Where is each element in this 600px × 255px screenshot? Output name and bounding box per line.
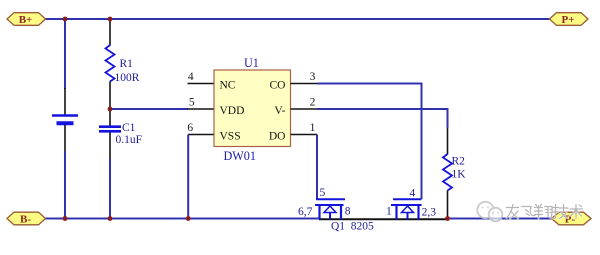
junction B- battery — [63, 216, 68, 221]
svg-text:Q1 8205: Q1 8205 — [331, 221, 374, 233]
battery BT bottom pin — [64, 125, 66, 151]
pin 2 V- — [291, 108, 318, 110]
pin 5 VDD — [188, 108, 214, 110]
svg-text:5: 5 — [320, 187, 326, 199]
svg-text:CO: CO — [270, 79, 286, 91]
capacitor C1 plates — [99, 127, 121, 132]
port P+ — [550, 13, 589, 27]
svg-text:1K: 1K — [452, 168, 467, 180]
wire VDD to C1/R1 junction — [110, 108, 188, 110]
wire VSS down to B- bus — [187, 135, 189, 219]
port P- — [552, 212, 592, 226]
svg-text:R2: R2 — [452, 156, 466, 168]
svg-text:6,7: 6,7 — [298, 206, 313, 218]
junction B+ R1 — [108, 17, 113, 22]
svg-text:4: 4 — [410, 187, 416, 199]
wire bottom bus black segment under Q1 — [319, 218, 448, 220]
svg-text:5: 5 — [189, 96, 195, 108]
pin 4 NC — [188, 83, 214, 85]
junction B+ battery — [63, 17, 68, 22]
port B+ — [7, 13, 46, 27]
battery BT plates — [52, 116, 78, 124]
resistor R1 bottom pin — [109, 82, 111, 110]
svg-text:B-: B- — [20, 214, 31, 226]
svg-text:2,3: 2,3 — [422, 207, 437, 219]
transistor Q1B (right half 8205) — [391, 199, 422, 219]
svg-text:VSS: VSS — [220, 130, 241, 142]
junction R2 P- — [445, 216, 450, 221]
svg-text:NC: NC — [220, 79, 236, 91]
wire bottom bus junction R2 to P- — [448, 218, 554, 220]
svg-text:V-: V- — [274, 105, 285, 117]
wire battery branch lower — [64, 151, 66, 219]
svg-text:VDD: VDD — [220, 105, 245, 117]
pin 1 DO — [291, 134, 318, 136]
watermark text (stylized CJK strokes with white halo) — [507, 204, 583, 218]
junction VDD R1 C1 — [108, 107, 113, 112]
resistor R2 bottom pin — [447, 191, 449, 219]
wire C1 to B- bus — [109, 158, 111, 219]
svg-text:B+: B+ — [19, 14, 33, 26]
wire bottom bus B- to P- — [44, 218, 320, 220]
svg-text:C1: C1 — [122, 122, 136, 134]
transistor Q1A (left half 8205) — [315, 199, 345, 219]
svg-text:DO: DO — [269, 130, 286, 142]
wire battery branch upper — [64, 19, 66, 89]
svg-text:3: 3 — [310, 71, 316, 83]
wire DO down to Q1A gate — [316, 135, 318, 200]
pin 3 CO — [291, 83, 318, 85]
svg-text:U1: U1 — [244, 56, 259, 70]
resistor R2 top pin — [447, 128, 449, 155]
battery BT top pin — [64, 88, 66, 115]
svg-text:R1: R1 — [120, 58, 134, 70]
resistor R2 zigzag — [443, 154, 452, 191]
svg-text:2: 2 — [310, 96, 316, 108]
resistor R1 top pin — [109, 19, 111, 46]
capacitor C1 bottom pin — [109, 133, 111, 159]
svg-text:0.1uF: 0.1uF — [116, 134, 143, 146]
junction B- VSS — [186, 216, 191, 221]
svg-text:6: 6 — [187, 122, 193, 134]
capacitor C1 top pin — [109, 109, 111, 126]
port B- — [7, 212, 46, 226]
svg-text:1: 1 — [310, 122, 316, 134]
svg-text:DW01: DW01 — [224, 149, 257, 163]
pin 6 VSS — [188, 134, 214, 136]
svg-text:1: 1 — [386, 206, 392, 218]
svg-text:8: 8 — [345, 206, 351, 218]
wire V- to R2 — [317, 109, 448, 128]
op-amp U1 DW01 body — [214, 70, 291, 147]
svg-text:P+: P+ — [562, 14, 575, 26]
wire top bus B+ to P+ — [44, 18, 551, 20]
wire CO to Q1B gate — [317, 84, 422, 200]
svg-text:100R: 100R — [115, 72, 140, 84]
junction B- C1 — [108, 216, 113, 221]
resistor R1 zigzag — [106, 45, 115, 82]
svg-text:4: 4 — [188, 71, 194, 83]
watermark logo circles — [477, 202, 502, 222]
